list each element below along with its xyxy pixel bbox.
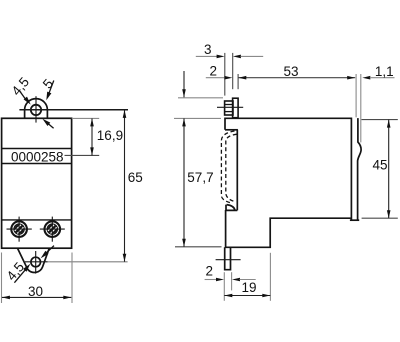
- svg-text:19: 19: [241, 280, 256, 295]
- svg-text:45: 45: [373, 158, 388, 173]
- svg-text:65: 65: [128, 170, 143, 185]
- svg-text:3: 3: [204, 42, 212, 57]
- svg-text:30: 30: [28, 284, 43, 299]
- svg-text:1,1: 1,1: [375, 64, 394, 79]
- svg-text:57,7: 57,7: [187, 170, 213, 185]
- svg-text:16,9: 16,9: [97, 128, 123, 143]
- svg-text:2: 2: [206, 264, 214, 279]
- svg-text:0000258: 0000258: [11, 149, 64, 164]
- svg-text:2: 2: [209, 64, 217, 79]
- svg-text:53: 53: [283, 64, 298, 79]
